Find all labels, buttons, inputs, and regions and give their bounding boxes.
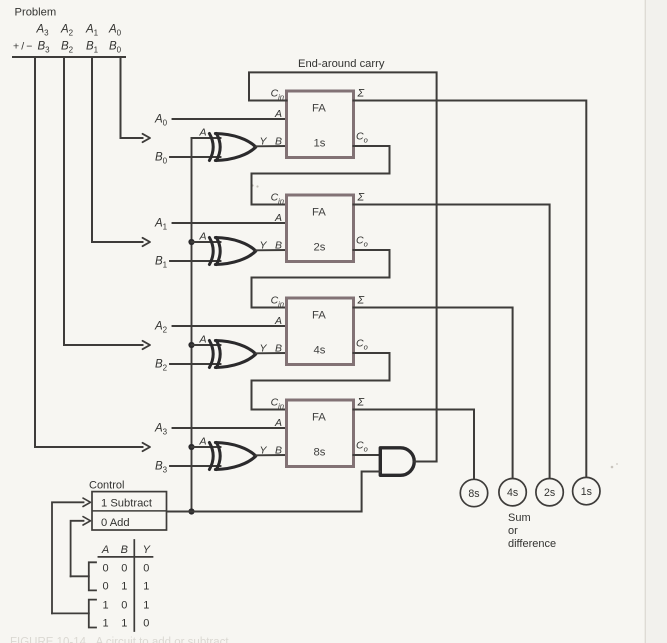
wire XOR X2 output Y to FA2 pin B	[256, 249, 287, 251]
wire XOR X4 output Y to FA4 pin B	[256, 454, 287, 456]
wire A2 to FA3 pin A	[173, 325, 287, 327]
wire FA1 Co to FA2 Cin (carry)	[252, 146, 390, 205]
svg-text:Sum: Sum	[508, 512, 531, 524]
wire FA2 Sigma to output 2s	[354, 205, 550, 479]
xor gate X4	[209, 443, 213, 470]
svg-text:A: A	[199, 436, 207, 448]
svg-text:1: 1	[102, 618, 108, 630]
wire end-around carry AND G1 output to FA1 Cin	[249, 72, 437, 461]
control box	[92, 492, 167, 530]
wire control bus to XOR X1 input A	[192, 137, 221, 139]
wire subtract bracket connector	[52, 612, 89, 614]
svg-text:Y: Y	[260, 240, 268, 252]
svg-text:FA: FA	[312, 207, 326, 219]
svg-text:A: A	[274, 417, 282, 429]
wire control to AND gate G1 lower input	[167, 472, 381, 512]
wire add select to control box	[71, 521, 84, 577]
svg-text:B: B	[275, 445, 282, 457]
wire problem column B3 to stage 4	[35, 58, 143, 447]
wire XOR X1 output Y to FA1 pin B	[256, 145, 287, 147]
svg-text:B: B	[275, 343, 282, 355]
wire A1 to FA2 pin A	[173, 222, 287, 224]
svg-text:0: 0	[102, 562, 108, 574]
wire B1 to XOR X2 input B	[170, 260, 221, 262]
svg-text:A: A	[274, 315, 282, 327]
svg-text:Y: Y	[260, 136, 268, 148]
svg-text:0 Add: 0 Add	[101, 517, 130, 529]
output terminal 1s	[573, 477, 600, 504]
wire FA4 Co to AND gate G1	[354, 454, 381, 456]
page edge shading right	[646, 0, 667, 643]
svg-text:2s: 2s	[544, 487, 555, 499]
full adder FA1 (1s)	[287, 91, 354, 158]
svg-text:0: 0	[143, 618, 149, 630]
svg-text:1s: 1s	[314, 138, 326, 150]
wire A0 to FA1 pin A	[173, 118, 287, 120]
svg-text:1s: 1s	[581, 486, 592, 498]
output terminal 4s	[499, 479, 526, 506]
svg-text:Y: Y	[143, 544, 151, 556]
wire control bus to XOR X4 input A	[192, 446, 221, 448]
svg-text:1: 1	[143, 580, 149, 592]
svg-text:Σ: Σ	[357, 397, 365, 409]
scan speck	[251, 184, 253, 186]
svg-text:A: A	[274, 108, 282, 120]
svg-text:1: 1	[102, 600, 108, 612]
svg-text:2s: 2s	[314, 242, 326, 254]
svg-text:0: 0	[102, 580, 108, 592]
svg-text:0: 0	[143, 562, 149, 574]
svg-text:B: B	[121, 544, 128, 556]
xor gate X1	[209, 134, 213, 161]
wire A3 to FA4 pin A	[173, 427, 287, 429]
wire control bus to XOR X3 input A	[192, 344, 221, 346]
svg-text:FA: FA	[312, 310, 326, 322]
svg-text:4s: 4s	[507, 487, 518, 499]
svg-text:A: A	[199, 127, 207, 139]
xor gate X3	[209, 341, 213, 368]
svg-text:1: 1	[121, 618, 127, 630]
wire FA3 Sigma to output 4s	[354, 308, 513, 479]
junction dot control bus bottom	[188, 508, 194, 514]
wire control line vertical (XOR A bus)	[191, 138, 193, 512]
svg-text:difference: difference	[508, 538, 556, 550]
svg-text:4s: 4s	[314, 345, 326, 357]
wire XOR X3 output Y to FA3 pin B	[256, 352, 287, 354]
wire B2 to XOR X3 input B	[170, 363, 221, 365]
svg-text:A: A	[274, 212, 282, 224]
svg-text:0: 0	[121, 600, 127, 612]
svg-text:8s: 8s	[468, 488, 479, 500]
svg-text:or: or	[508, 525, 518, 537]
full adder FA3 (4s)	[287, 298, 354, 365]
wire B0 to XOR X1 input B	[170, 156, 221, 158]
svg-text:FIGURE 10-14 A circuit to ad: FIGURE 10-14 A circuit to add or subtrac…	[10, 637, 229, 643]
wire control bus to XOR X2 input A	[192, 241, 221, 243]
svg-text:Y: Y	[260, 343, 268, 355]
bracket subtract rows (1x)	[89, 600, 96, 628]
svg-text:Σ: Σ	[357, 192, 365, 204]
junction dot control bus stage 3	[188, 342, 194, 348]
svg-text:0: 0	[121, 562, 127, 574]
svg-text:+ / −: + / −	[13, 41, 35, 53]
junction dot control bus stage 2	[188, 239, 194, 245]
truth table header rule	[98, 556, 152, 558]
junction dot control bus stage 4	[188, 444, 194, 450]
svg-text:B: B	[275, 136, 282, 148]
svg-text:1 Subtract: 1 Subtract	[101, 498, 153, 510]
wire problem column B2 to stage 3	[64, 58, 143, 345]
wire subtract select to control box	[52, 502, 84, 613]
svg-text:A: A	[199, 334, 207, 346]
output terminal 8s	[460, 479, 487, 506]
svg-text:B: B	[275, 240, 282, 252]
svg-text:Σ: Σ	[357, 88, 365, 100]
bracket add rows (0x)	[89, 562, 96, 590]
svg-text:FA: FA	[312, 412, 326, 424]
svg-text:A: A	[199, 231, 207, 243]
output terminal 2s	[536, 479, 563, 506]
wire FA4 Sigma to output 8s	[354, 410, 475, 480]
svg-text:Problem: Problem	[15, 7, 57, 19]
svg-text:8s: 8s	[314, 447, 326, 459]
svg-text:A: A	[101, 544, 109, 556]
truth table vertical rule	[133, 540, 135, 631]
svg-text:1: 1	[121, 580, 127, 592]
svg-text:FA: FA	[312, 103, 326, 115]
wire FA2 Co to FA3 Cin (carry)	[252, 250, 390, 308]
wire B3 to XOR X4 input B	[170, 465, 221, 467]
xor gate X2	[209, 238, 213, 265]
svg-text:Y: Y	[260, 445, 268, 457]
wire FA3 Co to FA4 Cin (carry)	[252, 353, 390, 410]
wire problem column B0 to stage 1	[121, 58, 143, 138]
wire add bracket connector	[71, 575, 89, 577]
svg-text:Control: Control	[89, 480, 124, 492]
svg-text:Σ: Σ	[357, 295, 365, 307]
and gate G1	[380, 448, 414, 476]
svg-text:1: 1	[143, 600, 149, 612]
full adder FA4 (8s)	[287, 400, 354, 467]
wire problem column B1 to stage 2	[92, 58, 143, 242]
wire FA1 Sigma to output 1s	[354, 101, 587, 478]
svg-text:End-around carry: End-around carry	[298, 58, 385, 70]
full adder FA2 (2s)	[287, 195, 354, 262]
problem underline rule	[13, 56, 125, 58]
